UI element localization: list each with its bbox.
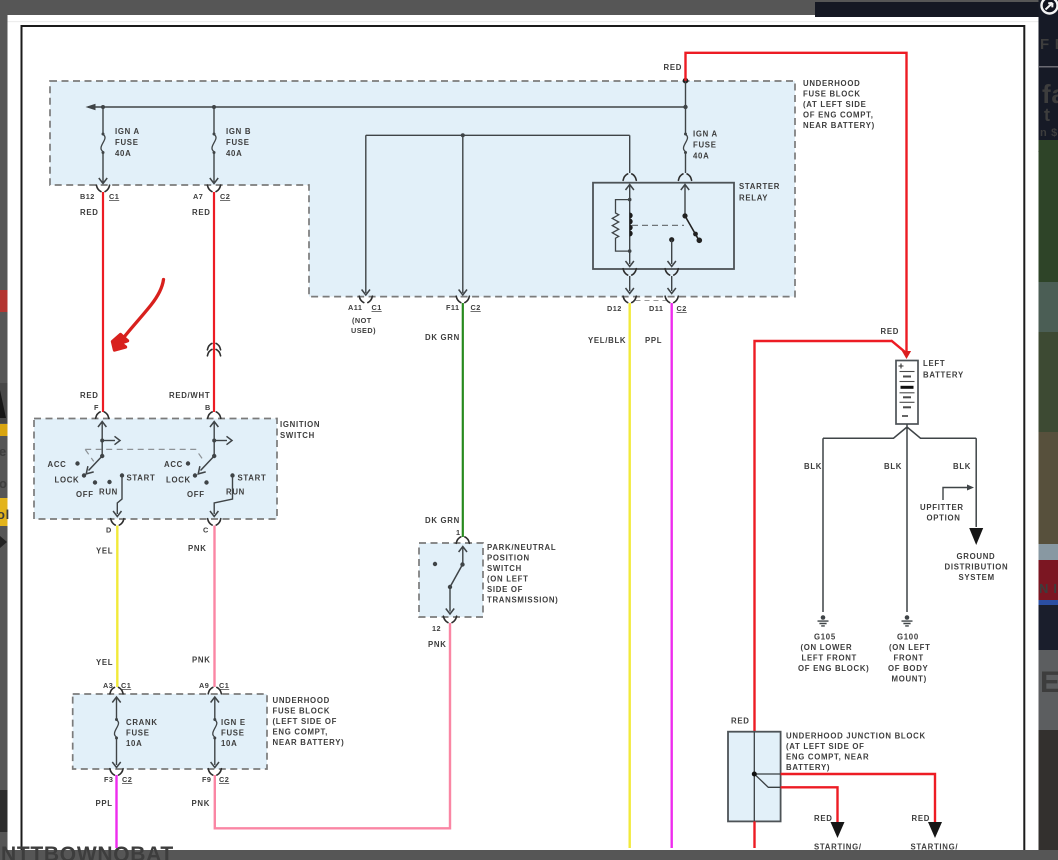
svg-text:C1: C1 [121,681,131,690]
label: IGN B FUSE 40A [226,127,251,158]
fuse IGN A FUSE 40A (left) [99,107,107,184]
svg-text:PARK/NEUTRAL: PARK/NEUTRAL [487,543,556,552]
label: LEFT BATTERY [923,359,964,380]
relay switch contacts [682,213,702,243]
svg-text:t: t [1044,105,1051,125]
label: PARK/NEUTRAL POSITION SWITCH (ON LEFT SIDE OF TRANSMISSION) [487,543,558,605]
svg-text:(ON LOWER: (ON LOWER [801,643,853,652]
ground G100 [888,615,931,683]
label: IGN E FUSE 10A [221,718,246,748]
svg-text:SWITCH: SWITCH [487,564,522,573]
red arrowhead into battery positive [902,351,911,359]
svg-text:RED: RED [912,814,931,823]
label: UPFITTER OPTION [920,503,964,523]
svg-text:LEFT FRONT: LEFT FRONT [802,654,858,663]
svg-text:IGN A: IGN A [115,127,140,136]
connector D11 C2 at fuse block bottom [636,296,687,313]
ignition switch dashed box [34,419,277,520]
label: IGNITION SWITCH [280,420,320,440]
svg-text:RED: RED [814,814,833,823]
wire: YEL/BLK from D12 down to page bottom [629,303,631,848]
svg-text:YEL: YEL [96,547,113,556]
svg-text:E: E [1040,666,1058,699]
wire: RED/WHT from A7 down to ignition switch B [213,192,215,412]
connector A11 C1 (not used) [348,296,382,335]
svg-text:YEL: YEL [96,658,113,667]
wire: drop to F11 [459,135,467,295]
connector cup at pin C [203,519,221,535]
svg-text:RED: RED [192,208,211,217]
connector cap at pin F [96,412,109,418]
svg-text:OFF: OFF [76,490,94,499]
wire: YEL from pin D down to A3 [116,526,118,688]
underhood junction block [728,732,781,822]
svg-text:C2: C2 [471,303,481,312]
connector D12 at fuse block bottom [607,296,636,313]
wire: PPL from D11 down to page bottom [671,303,673,848]
mechanical link dashed between poles [85,449,204,461]
pole 1 position contacts ACC LOCK OFF RUN START [75,461,124,484]
svg-text:C: C [203,526,209,535]
wire: drop to starter relay coil pin [629,135,631,173]
svg-text:FUSE: FUSE [115,138,139,147]
label: UNDERHOOD FUSE BLOCK (AT LEFT SIDE OF ENG COMPT, NEAR BATTERY) [803,79,875,130]
label: CRANK FUSE 10A [126,718,158,748]
label: UNDERHOOD JUNCTION BLOCK (AT LEFT SIDE OF ENG COMPT, NEAR BATTERY) [786,732,926,773]
connector cap at pin B [208,412,221,418]
wire: DK GRN from F11 to park/neutral switch [462,303,464,537]
wire: battery negative distribution [823,424,976,612]
connector A7 C2 below fuse block [193,185,230,201]
underhood fuse block (top, L-shaped dashed box) [50,81,795,297]
svg-text:ACC: ACC [48,460,67,469]
wire: pole 2 START output to pin C [210,476,233,517]
wire: RED battery feed from fuse block top to battery positive [686,53,907,353]
svg-text:STARTER: STARTER [739,182,780,191]
svg-text:RUN: RUN [226,488,245,497]
svg-text:IGN A: IGN A [693,130,718,139]
svg-text:MOUNT): MOUNT) [892,675,927,684]
upfitter option stub arrow [943,485,974,501]
starter relay box [593,183,734,269]
svg-text:OFF: OFF [187,490,205,499]
label: UNDERHOOD FUSE BLOCK (LEFT SIDE OF ENG COMPT, NEAR BATTERY) [273,696,345,747]
pin arrow into relay (switch) [681,185,689,216]
ignition switch pole 1 (fed by F) [86,422,120,474]
svg-text:FUSE BLOCK: FUSE BLOCK [273,707,331,716]
fuse CRANK FUSE 10A [112,697,120,768]
left browser strip fragments [0,290,10,832]
connector cap: relay switch top pin [678,174,691,180]
svg-text:A3: A3 [103,681,113,690]
svg-text:PPL: PPL [96,799,113,808]
svg-text:FUSE: FUSE [693,141,717,150]
svg-text:NTTBQWNQBAT: NTTBQWNQBAT [1,843,174,860]
svg-text:TRANSMISSION): TRANSMISSION) [487,596,558,605]
svg-text:C2: C2 [677,304,687,313]
svg-text:POSITION: POSITION [487,554,530,563]
ignition switch pole 2 (fed by B) [198,422,232,474]
svg-text:A7: A7 [193,192,203,201]
label: IGN A FUSE 40A (right) [693,130,718,161]
svg-text:OF BODY: OF BODY [888,664,929,673]
svg-text:D11: D11 [649,304,663,313]
svg-text:C1: C1 [219,681,229,690]
connector F11 C2 [446,296,481,312]
arrow to starting system (left) [831,822,845,838]
relay switch output pin [668,237,676,266]
connector below relay (coil side) [623,269,636,294]
svg-text:FUSE: FUSE [221,729,245,738]
fuse IGN B FUSE 40A [210,107,218,184]
svg-text:BATTERY): BATTERY) [786,763,830,772]
svg-text:(LEFT SIDE OF: (LEFT SIDE OF [273,717,338,726]
svg-text:FRONT: FRONT [894,654,924,663]
junction block internal bus [754,732,780,822]
svg-text:PNK: PNK [428,640,447,649]
svg-text:G105: G105 [814,633,836,642]
underhood fuse block (lower left dashed box) [73,694,267,769]
wire: RED output 1 to starting system [781,774,935,824]
svg-text:DK GRN: DK GRN [425,516,460,525]
svg-text:G100: G100 [897,633,919,642]
svg-text:RED: RED [80,391,99,400]
svg-text:OF ENG BLOCK): OF ENG BLOCK) [798,664,869,673]
svg-text:B12: B12 [80,192,95,201]
svg-text:RED: RED [80,208,99,217]
park/neutral position switch dashed box [419,543,483,617]
node: junction on coil feed bus [461,133,465,137]
svg-text:BLK: BLK [953,462,971,471]
arrow to starting system (right) [928,822,942,838]
svg-text:RED: RED [881,327,900,336]
svg-text:PNK: PNK [192,656,211,665]
ground G105 [798,615,869,673]
svg-text:ACC: ACC [164,460,183,469]
svg-text:A11: A11 [348,303,362,312]
fuse IGN E FUSE 10A [211,697,219,768]
coil feed bus (second horizontal inside fuse block) [366,134,630,136]
svg-text:IGNITION: IGNITION [280,420,320,429]
arrow to ground distribution system [969,528,983,545]
svg-text:PNK: PNK [192,799,211,808]
svg-text:12: 12 [432,624,441,633]
svg-text:RELAY: RELAY [739,194,768,203]
wire: from top edge node down to bus [685,81,687,107]
pole 2 position contacts [186,461,235,484]
wire: main bus inside fuse block with left arrow [86,104,686,110]
connector cup at P/N pin 12 [432,616,457,633]
wire: PPL from F3 down to page bottom [115,775,117,848]
svg-text:RED: RED [731,717,750,726]
svg-text:F3: F3 [104,775,113,784]
svg-text:STARTING/: STARTING/ [814,843,862,852]
svg-text:FUSE: FUSE [226,138,250,147]
svg-text:UNDERHOOD: UNDERHOOD [273,696,330,705]
dark webpage header block top-right [815,0,1058,17]
label: IGN A FUSE 40A [115,127,140,158]
connector A9 C1 [199,681,229,694]
bottom band with cut-off webpage headline [0,843,1058,860]
svg-text:LOCK: LOCK [166,476,191,485]
circular share icon top right [1042,0,1058,14]
svg-text:(AT LEFT SIDE OF: (AT LEFT SIDE OF [786,742,865,751]
wire: BLK to G105 [822,438,824,612]
svg-text:RED/WHT: RED/WHT [169,391,210,400]
svg-text:(NOT: (NOT [352,316,372,325]
connector cap at P/N pin 1 [456,537,469,543]
svg-text:SIDE OF: SIDE OF [487,585,523,594]
svg-text:C1: C1 [109,192,119,201]
svg-text:IGN E: IGN E [221,718,246,727]
svg-text:OPTION: OPTION [927,514,961,523]
svg-text:UNDERHOOD JUNCTION BLOCK: UNDERHOOD JUNCTION BLOCK [786,732,926,741]
svg-text:BATTERY: BATTERY [923,371,964,380]
svg-text:F E: F E [1040,36,1058,53]
wire: pole 1 START output to pin D [113,476,122,517]
svg-text:CRANK: CRANK [126,718,158,727]
svg-text:STARTING/: STARTING/ [911,843,959,852]
hand-drawn red annotation arrow [113,280,164,351]
svg-text:C1: C1 [372,303,382,312]
node: bus junction at IGN A fuse [101,105,105,109]
svg-text:DISTRIBUTION: DISTRIBUTION [945,563,1009,572]
svg-text:C2: C2 [219,775,229,784]
svg-text:SWITCH: SWITCH [280,431,315,440]
node: junction block tap [752,772,757,777]
connector cup at pin D [106,519,124,535]
svg-text:BLK: BLK [884,462,902,471]
label: GROUND DISTRIBUTION SYSTEM [945,552,1009,582]
park/neutral switch contacts [433,547,467,615]
labels: ACC LOCK OFF RUN START (pole 1) [48,460,156,499]
svg-text:ol: ol [0,507,10,522]
connector cap: relay coil top pin [623,174,636,180]
relay coil winding [628,198,633,253]
svg-text:OF ENG COMPT,: OF ENG COMPT, [803,111,874,120]
connector B12 C1 below fuse block [80,185,119,201]
svg-text:SYSTEM: SYSTEM [959,573,995,582]
svg-text:e: e [0,444,7,459]
svg-text:C2: C2 [122,775,132,784]
svg-text:40A: 40A [226,149,242,158]
svg-text:DK GRN: DK GRN [425,333,460,342]
svg-text:F9: F9 [202,775,211,784]
wire: drop to A11 (not used) [362,135,370,295]
svg-text:D12: D12 [607,304,622,313]
dashed actuator link [632,224,684,226]
svg-text:NEAR BATTERY): NEAR BATTERY) [273,738,345,747]
svg-text:10A: 10A [126,739,142,748]
svg-text:n $: n $ [1040,127,1058,139]
connector A3 C1 [103,681,131,694]
svg-text:UNDERHOOD: UNDERHOOD [803,79,860,88]
svg-text:N I: N I [1039,581,1058,596]
svg-text:B: B [205,403,211,412]
connector below relay (switch side) [665,269,678,294]
node: bus junction at IGN B fuse [212,105,216,109]
svg-text:START: START [127,474,156,483]
svg-text:F: F [94,403,99,412]
wire: PNK from pin C down to A9 [213,526,215,688]
connector F3 C2 [104,769,132,784]
wire: RED from B12 down to ignition switch F [102,192,104,412]
svg-text:USED): USED) [351,326,376,335]
webpage sidebar strip on right [1038,0,1058,860]
fuse IGN A FUSE 40A (right, starter feed) [683,107,687,173]
label: STARTER RELAY [739,182,780,203]
node: RED feed dot on fuse block top edge [683,78,689,84]
svg-text:10A: 10A [221,739,237,748]
svg-text:ENG COMPT, NEAR: ENG COMPT, NEAR [786,753,869,762]
svg-text:START: START [238,474,267,483]
relay coil output pin [626,251,634,266]
svg-text:LEFT: LEFT [923,359,945,368]
svg-text:F11: F11 [446,303,460,312]
svg-text:RED: RED [664,63,683,72]
svg-text:LOCK: LOCK [55,476,80,485]
wire: PNK from P/N pin 12 down, left to F9 riser [215,623,450,828]
svg-text:UPFITTER: UPFITTER [920,503,964,512]
svg-text:BLK: BLK [804,462,822,471]
svg-text:RUN: RUN [99,488,118,497]
svg-text:FUSE BLOCK: FUSE BLOCK [803,90,861,99]
wire: RED below junction block to page bottom [753,821,755,848]
svg-text:YEL/BLK: YEL/BLK [588,336,626,345]
svg-text:(AT LEFT SIDE: (AT LEFT SIDE [803,100,867,109]
svg-text:40A: 40A [115,149,131,158]
inline connector on RED/WHT wire [207,343,220,355]
svg-text:D: D [106,526,112,535]
connector F9 C2 [202,769,229,784]
svg-text:GROUND: GROUND [957,552,996,561]
svg-text:(ON LEFT: (ON LEFT [889,643,931,652]
svg-text:1: 1 [456,528,461,537]
svg-text:A9: A9 [199,681,209,690]
node: bus junction at right RED feed [683,105,687,109]
labels: ACC LOCK OFF RUN START (pole 2) [164,460,266,499]
svg-text:ENG COMPT,: ENG COMPT, [273,728,329,737]
svg-text:PPL: PPL [645,336,662,345]
svg-text:(ON LEFT: (ON LEFT [487,575,529,584]
wire: RED output 2 to starting system [781,787,838,824]
pin arrow into relay (coil) [626,185,634,200]
wire: BLK to ground distribution system [975,438,977,527]
svg-text:IGN B: IGN B [226,127,251,136]
wire: RED from battery positive to junction block riser [755,340,907,731]
svg-text:NEAR BATTERY): NEAR BATTERY) [803,121,875,130]
svg-text:PNK: PNK [188,544,207,553]
svg-text:o: o [0,476,8,491]
svg-text:C2: C2 [220,192,230,201]
relay resistor (parallel) [612,200,629,252]
svg-text:FUSE: FUSE [126,729,150,738]
svg-text:40A: 40A [693,152,709,161]
battery (LEFT BATTERY) [896,361,918,425]
